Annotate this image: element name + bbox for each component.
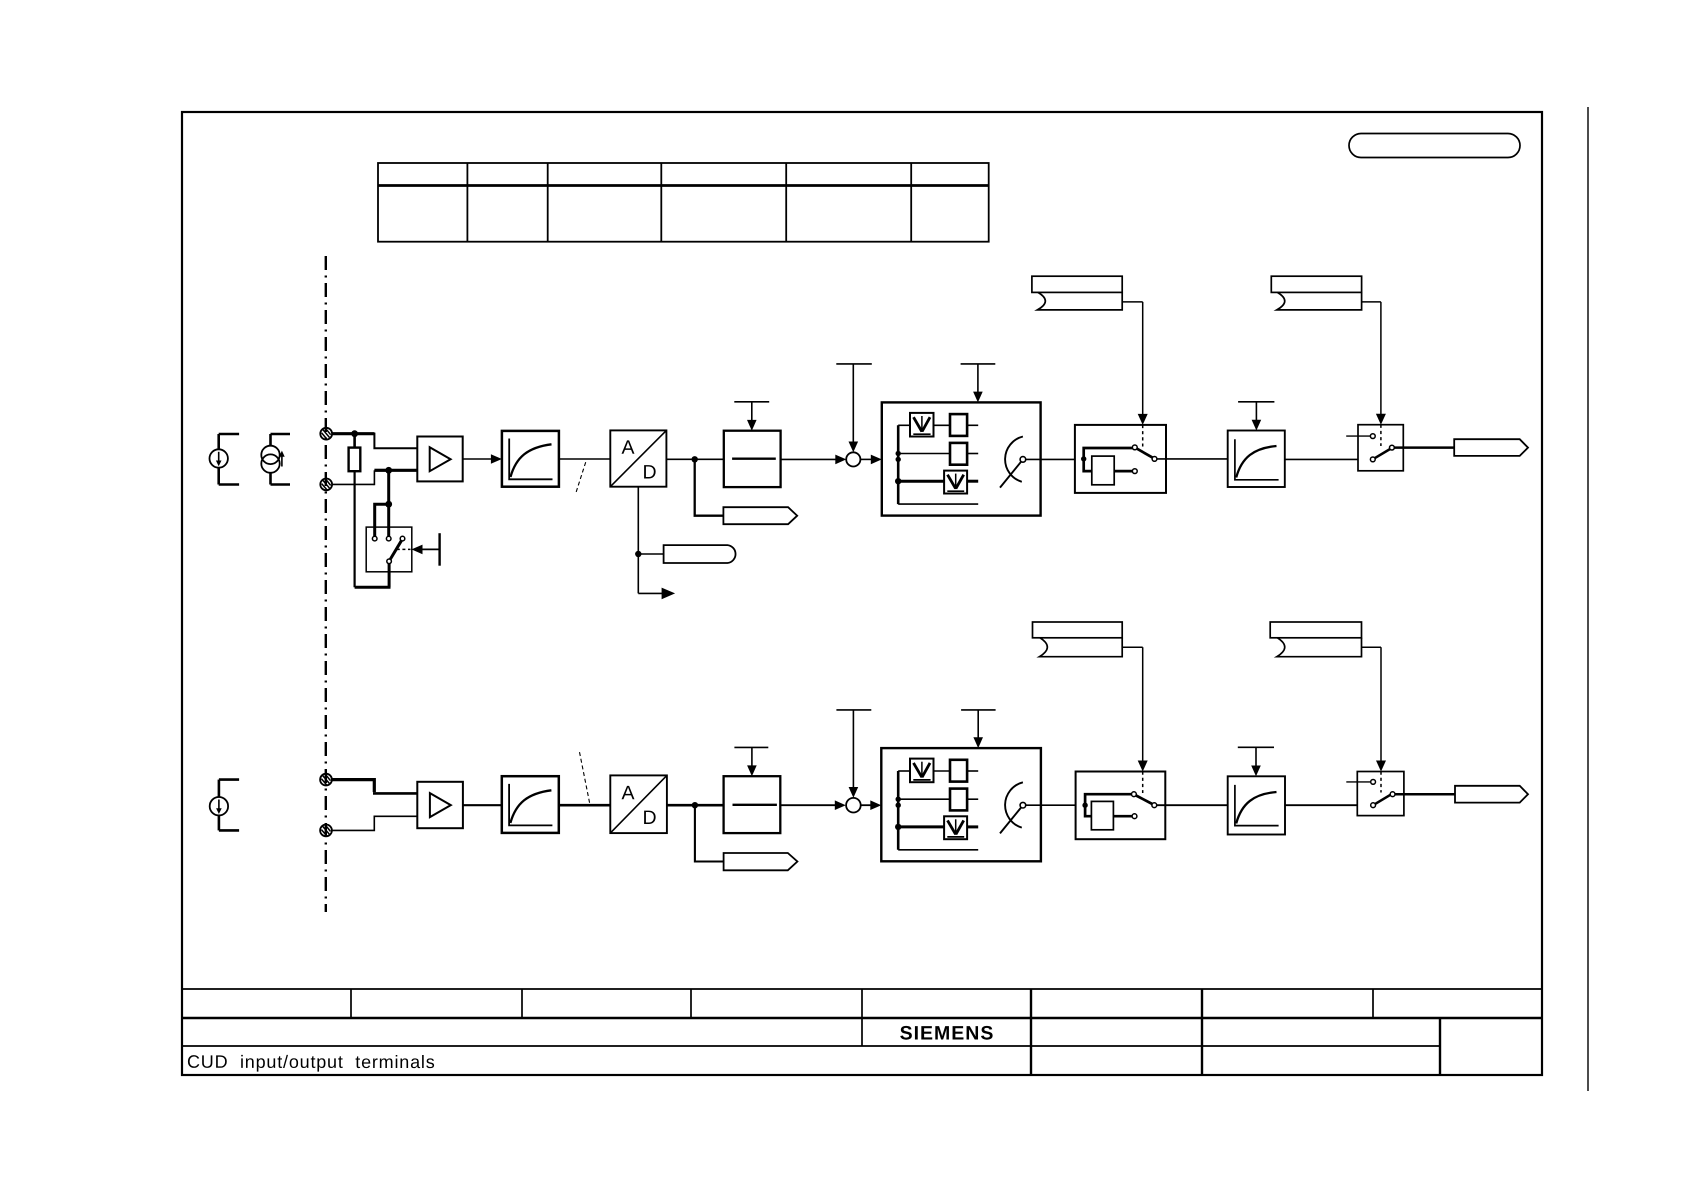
junction node ADC 2 out bbox=[692, 802, 698, 808]
parameter banner BN1 bbox=[1032, 276, 1122, 310]
SW2 lower path wire b bbox=[1113, 815, 1132, 818]
pill connector K2 bbox=[664, 545, 736, 563]
junction node ADC tap bbox=[635, 551, 641, 557]
SW2 lower path wire bbox=[1085, 805, 1091, 816]
SW1 upper path wire bbox=[1084, 448, 1133, 459]
SW2 upper contact bbox=[1132, 792, 1137, 797]
svg-text:A: A bbox=[621, 782, 634, 804]
voltage source symbol G3 bbox=[210, 780, 239, 831]
FS2 upper contact bbox=[1371, 780, 1376, 785]
branch 1 wire bbox=[898, 424, 910, 426]
FB1 control arrow bbox=[1252, 420, 1262, 431]
branch 3 stub (2) bbox=[967, 825, 978, 828]
min-eval box B1a bbox=[910, 413, 934, 437]
wire: step up bbox=[373, 470, 375, 485]
wire: switch common down bbox=[388, 563, 391, 587]
mode select switch S1 box bbox=[366, 527, 412, 572]
svg-text:CUD input/output terminals: CUD input/output terminals bbox=[187, 1052, 436, 1072]
wire: summer 2 out bbox=[861, 804, 872, 806]
wire: FS1 out bbox=[1394, 446, 1454, 449]
parameter box P1 bbox=[950, 414, 967, 436]
wire: amp out bbox=[463, 458, 493, 460]
FB1 T-bar bbox=[1238, 401, 1274, 403]
wire: filter to ADC 2 bbox=[559, 804, 611, 807]
FS1 control drop line bbox=[1380, 302, 1382, 416]
branch 2 wire bbox=[898, 453, 950, 455]
SW2 control arrow bbox=[1138, 761, 1148, 772]
wire: terminal X176 to amp bbox=[332, 780, 374, 793]
SH1 control line bbox=[751, 402, 753, 422]
limiter input junction bbox=[896, 457, 901, 462]
SW1 lower path wire b bbox=[1114, 470, 1132, 473]
FS1 upper contact bbox=[1370, 434, 1375, 439]
branch 1 wire b (2) bbox=[934, 770, 951, 772]
FB2 T-bar bbox=[1238, 746, 1274, 748]
SW1 input junction bbox=[1081, 456, 1086, 461]
sample hold block SH1 bbox=[724, 431, 781, 487]
wire: terminal X177 to amp bbox=[332, 816, 417, 830]
branch 3 wire bbox=[898, 480, 944, 483]
wire: branch left to switch pin 1 bbox=[375, 504, 389, 536]
limiter 2 input junction bbox=[896, 803, 901, 808]
wire: ADC bottom tap bbox=[637, 487, 639, 594]
junction node bbox=[351, 430, 358, 437]
wire: ADC 2 out bbox=[667, 804, 724, 807]
SH2 control arrow bbox=[747, 765, 757, 776]
limiter T-bar bbox=[961, 363, 996, 365]
SW1 control drop line bbox=[1142, 302, 1144, 416]
FS1 alt input stub bbox=[1346, 435, 1370, 437]
terminal X174 (hatched) bbox=[320, 428, 332, 440]
switch S1 actuator dotted link bbox=[397, 548, 411, 550]
arrow into limiter 2 bbox=[870, 800, 881, 810]
offset arrow into summer 2 bbox=[849, 787, 859, 798]
terminal X176 (hatched) bbox=[320, 774, 332, 786]
filter block FB2 bbox=[1228, 776, 1285, 834]
banner BN4 tap bbox=[1362, 646, 1382, 648]
output connector flag K3 bbox=[1454, 439, 1528, 456]
wire: junction 2 down bbox=[387, 470, 390, 504]
SW1 lever bbox=[1137, 449, 1153, 458]
summing point S2 bbox=[846, 798, 861, 813]
FS1 output contact bbox=[1390, 445, 1395, 450]
limiter pointer bbox=[1000, 462, 1021, 488]
limiter control arrow bbox=[973, 392, 983, 403]
wire: terminal X174 to junction bbox=[332, 432, 355, 435]
limiter 2 T-bar bbox=[961, 709, 996, 711]
wire: step to amp input 1 bbox=[374, 792, 417, 793]
SH2 control line bbox=[751, 747, 753, 767]
SW2 input junction bbox=[1082, 803, 1087, 808]
switch S1 actuator line bbox=[422, 548, 440, 550]
wire: terminal X175 to step bbox=[332, 483, 374, 485]
limiter pointer pivot bbox=[1020, 457, 1026, 463]
SW2 parameter box bbox=[1091, 801, 1113, 829]
terminal X175 (hatched) bbox=[320, 479, 332, 491]
filter block FB1 bbox=[1228, 431, 1285, 488]
amplifier U1 bbox=[417, 437, 462, 482]
switch S1 actuator arrow bbox=[412, 545, 423, 555]
switch S1 actuator T-bar bbox=[438, 533, 440, 566]
branch 1 wire (2) bbox=[898, 770, 910, 772]
svg-text:D: D bbox=[642, 807, 656, 829]
offset line into summer 2 bbox=[852, 710, 854, 789]
arrow into summer 2 bbox=[835, 800, 846, 810]
ADC U4 A/D converter bbox=[610, 775, 667, 833]
wire: junction 2 to amp input 2 bbox=[389, 469, 418, 472]
wire: ADC out bbox=[666, 458, 723, 460]
SH1 control T-bar bbox=[734, 401, 769, 403]
track-hold switch block SW2 bbox=[1076, 772, 1166, 840]
SW1 lower path wire bbox=[1084, 459, 1092, 471]
branch 3 wire (2) bbox=[898, 825, 944, 828]
limiter 2 control line bbox=[977, 710, 979, 739]
wire: down to switch pin 2 bbox=[387, 504, 390, 536]
wire: limiter out to switch block bbox=[1026, 458, 1075, 460]
arrow into limiter bbox=[871, 455, 882, 465]
limiter 2 input bus bbox=[897, 771, 900, 850]
branch 2 wire (2) bbox=[898, 798, 950, 800]
limiter block B1 bbox=[882, 402, 1041, 515]
branch 1 wire b bbox=[934, 424, 951, 426]
switch S1 common pin bbox=[387, 559, 392, 564]
ADC U2 A/D converter bbox=[610, 430, 666, 486]
junction node 3 bbox=[385, 501, 392, 508]
bottom stub wire (2) bbox=[898, 849, 978, 851]
parameter box P2 bbox=[950, 443, 967, 465]
branch 2 junction bbox=[896, 451, 901, 456]
branch 2 junction (2) bbox=[896, 797, 901, 802]
branch 1 stub (2) bbox=[967, 770, 978, 772]
SW2 control drop line bbox=[1142, 647, 1144, 762]
FB2 control line bbox=[1255, 747, 1257, 767]
output switch FS1 bbox=[1358, 425, 1403, 471]
summing point S1 bbox=[846, 452, 860, 466]
FS1 control dashed bbox=[1380, 425, 1382, 446]
resistor R110 bbox=[349, 448, 361, 472]
SW2 lever bbox=[1136, 796, 1152, 805]
sample hold block SH2 bbox=[724, 776, 781, 833]
sheet reference pill top right bbox=[1349, 134, 1520, 158]
parameter banner BN3 bbox=[1033, 622, 1123, 657]
wire: FB1 to output switch bbox=[1285, 458, 1358, 460]
page edge line right bbox=[1587, 107, 1589, 1091]
SH1 control arrow bbox=[747, 420, 757, 431]
wire: junction to step bbox=[355, 432, 375, 435]
SW1 lower contact bbox=[1132, 469, 1137, 474]
voltage source symbol G1 bbox=[210, 434, 240, 485]
SW2 output contact bbox=[1152, 803, 1157, 808]
svg-text:D: D bbox=[642, 461, 656, 483]
branch 3 junction (2) bbox=[895, 824, 901, 830]
FS2 control dashed bbox=[1380, 772, 1382, 793]
FS1 lever bbox=[1375, 449, 1390, 458]
sheet border frame bbox=[182, 112, 1542, 1075]
junction node ADC out bbox=[692, 456, 698, 462]
wire: junction down to resistor bbox=[353, 434, 356, 448]
arrow into summer bbox=[835, 455, 846, 465]
limiter 2 pointer pivot bbox=[1020, 802, 1026, 808]
branch 2 stub (2) bbox=[967, 798, 978, 800]
track-hold switch block SW1 bbox=[1075, 425, 1166, 493]
arrow into filter bbox=[491, 454, 502, 464]
switch S1 lever bbox=[390, 541, 401, 560]
parameter banner BN2 bbox=[1271, 276, 1361, 310]
SW2 lower contact bbox=[1132, 814, 1137, 819]
parameter banner BN4 bbox=[1270, 622, 1361, 657]
display connector flag K1 bbox=[723, 507, 797, 524]
SW2 upper path wire bbox=[1085, 794, 1132, 805]
wire: FS2 out bbox=[1395, 793, 1455, 796]
continuation arrow bbox=[662, 588, 676, 600]
wire: tap down to display connector bbox=[695, 459, 724, 515]
min-eval box B2a bbox=[910, 759, 934, 783]
SW1 output contact bbox=[1152, 457, 1157, 462]
junction node 2 bbox=[385, 467, 392, 474]
FS2 lower contact bbox=[1371, 803, 1376, 808]
bottom stub wire bbox=[898, 503, 978, 505]
output switch FS2 bbox=[1357, 772, 1404, 816]
switch S1 pin 3 bbox=[400, 536, 405, 541]
SW1 control arrow bbox=[1138, 414, 1148, 425]
banner BN2 tap bbox=[1362, 301, 1381, 303]
banner BN1 tap bbox=[1122, 301, 1143, 303]
wire: tap down to display connector 2 bbox=[695, 805, 724, 861]
branch 3 stub bbox=[967, 480, 978, 483]
SW1 control dashed bbox=[1142, 425, 1144, 447]
limiter control line bbox=[977, 364, 979, 394]
FS2 output contact bbox=[1390, 792, 1395, 797]
output connector flag K5 bbox=[1455, 786, 1528, 803]
terminal X177 (hatched) bbox=[320, 825, 332, 837]
wire: SW2 out bbox=[1157, 804, 1228, 806]
limiter 2 control arrow bbox=[973, 737, 983, 748]
SW1 parameter box bbox=[1092, 456, 1114, 485]
SW1 upper contact bbox=[1132, 445, 1137, 450]
FB2 control arrow bbox=[1251, 766, 1261, 777]
limiter 2 pointer bbox=[1000, 808, 1021, 834]
branch 1 stub bbox=[967, 424, 978, 426]
offset T-bar over summer bbox=[836, 363, 872, 365]
wire: limiter 2 out bbox=[1026, 804, 1076, 806]
branch 2 stub bbox=[967, 453, 978, 455]
revision table bbox=[378, 163, 989, 242]
wire: to junction 2 bbox=[374, 469, 388, 472]
title block outline bbox=[182, 989, 1542, 1075]
limiter block B2 bbox=[881, 748, 1041, 861]
min-eval box B2b bbox=[944, 816, 967, 839]
amplifier U3 bbox=[417, 782, 463, 828]
branch 3 junction bbox=[895, 478, 901, 484]
offset T-bar over summer 2 bbox=[836, 709, 871, 711]
wire: resistor bottom down bbox=[354, 471, 356, 587]
wire: SW1 out bbox=[1157, 458, 1228, 460]
offset line into summer bbox=[852, 364, 854, 443]
FS1 control arrow bbox=[1376, 414, 1386, 425]
SW2 control dashed bbox=[1142, 772, 1144, 794]
limiter input bus bbox=[897, 425, 900, 504]
display connector flag K4 bbox=[724, 853, 798, 870]
limiter 2 characteristic arc bbox=[1005, 782, 1023, 827]
limiter characteristic arc bbox=[1005, 437, 1023, 482]
FS2 control drop line bbox=[1380, 647, 1382, 762]
SH2 control T-bar bbox=[734, 746, 768, 748]
offset arrow into summer bbox=[849, 442, 859, 453]
FB1 control line bbox=[1255, 402, 1257, 422]
bus width slash bbox=[576, 460, 586, 492]
isolation barrier dash-dot line bbox=[325, 256, 327, 912]
bus width slash 2 bbox=[580, 752, 590, 803]
svg-text:SIEMENS: SIEMENS bbox=[900, 1022, 995, 1044]
wire: bottom with continuation arrow bbox=[638, 592, 663, 594]
FS1 lower contact bbox=[1370, 457, 1375, 462]
wire: SH2 to summer bbox=[780, 804, 837, 806]
wire: SH1 to summer bbox=[781, 458, 838, 460]
svg-text:A: A bbox=[621, 437, 634, 459]
filter block F2 (smoothing) bbox=[502, 776, 559, 833]
wire: to pill connector bbox=[638, 553, 663, 555]
FS2 control arrow bbox=[1376, 761, 1386, 772]
wire: step down to amp input 1 bbox=[374, 433, 417, 449]
FS2 lever bbox=[1375, 795, 1390, 804]
min-eval box B1b bbox=[944, 471, 967, 494]
parameter box P3 bbox=[950, 760, 967, 782]
filter block F1 (smoothing) bbox=[502, 431, 559, 487]
banner BN3 tap bbox=[1122, 646, 1143, 648]
FS2 alt input stub bbox=[1346, 781, 1370, 783]
switch S1 pin 1 bbox=[372, 536, 377, 541]
wire: summer out bbox=[860, 458, 872, 460]
wire: filter to ADC bbox=[559, 458, 610, 460]
wire: FB2 to output switch 2 bbox=[1285, 804, 1357, 806]
current source symbol G2 bbox=[261, 434, 290, 485]
wire: amp out bbox=[463, 804, 502, 806]
switch S1 pin 2 bbox=[386, 536, 391, 541]
parameter box P4 bbox=[950, 789, 967, 811]
wire: bottom loop to resistor bbox=[355, 586, 391, 589]
